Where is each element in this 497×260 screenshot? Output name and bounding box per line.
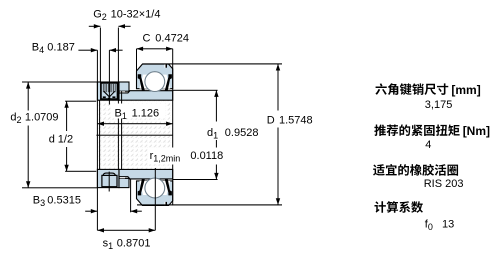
extension line B3 right — [130, 179, 131, 212]
bore line x121.6 — [121, 91, 122, 169]
extension line d top — [65, 101, 96, 102]
extension line d2 top — [22, 82, 97, 83]
label boxes — [111, 104, 166, 119]
svg-text:C: C — [143, 32, 151, 44]
bore line x99.6 — [99, 100, 100, 169]
dimension B4 — [78, 50, 97, 51]
dimension C — [137, 48, 173, 49]
dimension D — [278, 64, 279, 205]
extension line ball center — [155, 168, 156, 230]
svg-text:3,175: 3,175 — [425, 99, 453, 111]
inner ring eccentric boss upper — [119, 82, 129, 91]
svg-text:10-32×1/4: 10-32×1/4 — [111, 8, 161, 20]
spec header tightening torque — [374, 124, 459, 136]
svg-text:D: D — [267, 114, 275, 126]
svg-text:[Nm]: [Nm] — [463, 124, 490, 138]
seal lower right — [165, 179, 172, 196]
inner ring lower band — [119, 169, 173, 179]
extension line right face / C right — [172, 49, 173, 206]
extension line d1 top — [173, 90, 218, 91]
dimension B1 — [97, 123, 172, 124]
extension line C left — [136, 49, 137, 74]
svg-text:0.5315: 0.5315 — [47, 195, 81, 207]
lubrication groove notch lower — [164, 202, 165, 206]
inner ring eccentric boss lower — [119, 178, 129, 187]
svg-text:1/2: 1/2 — [58, 133, 73, 145]
inner ring upper band — [119, 91, 173, 101]
extension line D top — [142, 63, 282, 64]
locking collar lower section — [97, 169, 119, 187]
seal lower left — [138, 179, 145, 196]
bore hatched area — [97, 100, 172, 169]
ball lower — [145, 178, 165, 198]
dimension d1 — [216, 90, 217, 179]
seal upper left — [138, 74, 145, 91]
svg-text:4: 4 — [425, 139, 431, 151]
lubrication groove notch upper — [164, 64, 165, 68]
seal upper right — [165, 74, 172, 91]
svg-text:0.187: 0.187 — [47, 41, 75, 53]
svg-text:d: d — [49, 133, 55, 145]
dimension s1 — [97, 230, 155, 231]
svg-text:0.9528: 0.9528 — [225, 127, 259, 139]
svg-text:1.126: 1.126 — [132, 107, 160, 119]
screw axis lower — [109, 172, 110, 192]
svg-text:1.0709: 1.0709 — [25, 112, 59, 124]
ball upper — [145, 72, 165, 92]
svg-text:[mm]: [mm] — [451, 83, 480, 97]
set screw G2 sectioned — [101, 83, 118, 99]
extension line d bottom — [65, 171, 96, 172]
notch between collar boss and sleeve upper — [120, 91, 125, 92]
extension line d2 bottom — [22, 187, 97, 188]
spec header hex key size — [375, 83, 448, 95]
outer ring upper section — [137, 64, 173, 89]
extension line D bottom — [137, 204, 282, 205]
svg-text:RIS 203: RIS 203 — [424, 178, 464, 190]
notch between collar boss and sleeve lower — [120, 177, 125, 178]
svg-text:0.8701: 0.8701 — [117, 237, 151, 249]
extension line d1 bottom — [173, 179, 218, 180]
spec header rubber seating ring — [373, 164, 458, 176]
set screw G2 elevation lower — [103, 173, 115, 175]
dimension G2 — [89, 26, 101, 27]
extension line screw axis upper — [109, 50, 110, 104]
extension line G2 left — [100, 28, 101, 83]
svg-text:0.4724: 0.4724 — [155, 32, 189, 44]
outer ring seal pocket lower — [139, 181, 170, 195]
dimension d2 — [28, 82, 29, 188]
dimension B3 — [85, 211, 97, 212]
shaft centerline — [96, 135, 172, 136]
dimension d — [66, 101, 67, 171]
extension line left face x97.4 — [97, 50, 98, 230]
outer ring seal pocket upper — [139, 75, 170, 89]
svg-text:1.5748: 1.5748 — [279, 114, 313, 126]
outer ring lower section — [137, 181, 173, 206]
locking collar upper section — [97, 82, 119, 100]
extension line G2 right / bore line — [118, 28, 119, 170]
spec header calculation factor — [374, 201, 423, 213]
svg-text:0.0118: 0.0118 — [190, 150, 223, 162]
